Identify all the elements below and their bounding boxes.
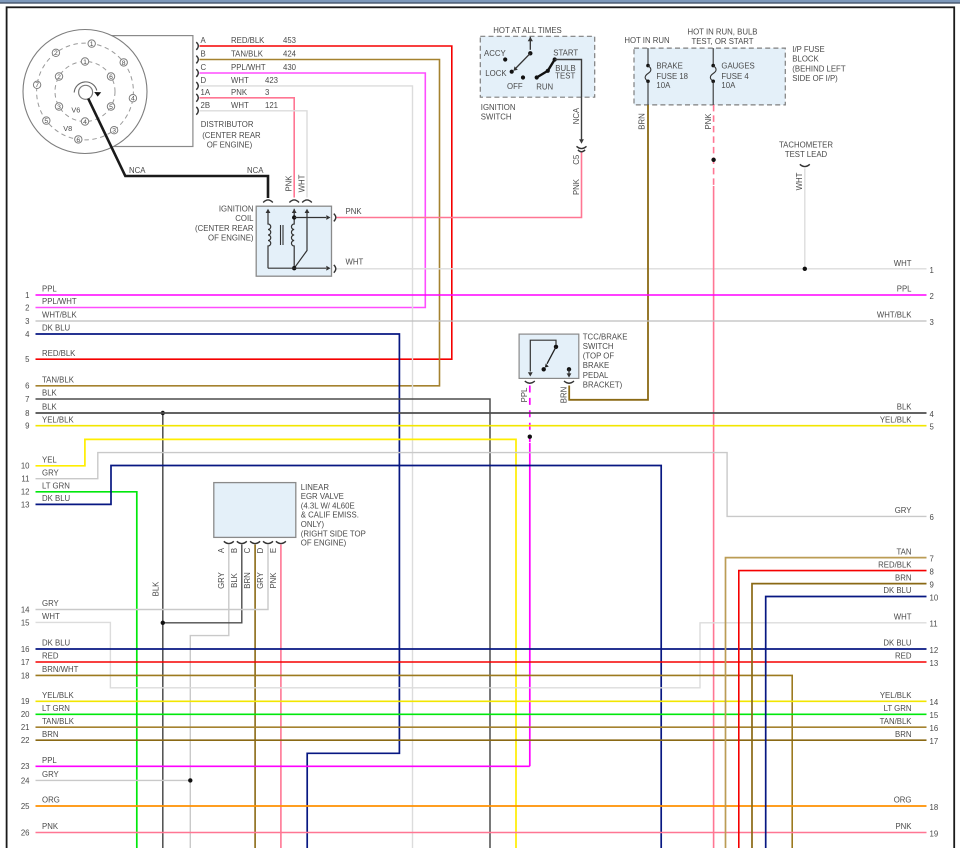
svg-text:1: 1 (90, 41, 94, 48)
svg-text:430: 430 (283, 63, 297, 72)
wire PNK EGR pin E to bottom (280, 545, 282, 848)
svg-text:14: 14 (21, 605, 30, 614)
svg-text:10A: 10A (656, 81, 671, 90)
svg-text:BLOCK: BLOCK (792, 55, 819, 64)
svg-text:PNK: PNK (231, 88, 248, 97)
wire left 7 BLK (36, 399, 491, 848)
EGR pin B connector (237, 541, 247, 543)
svg-text:BRAKE: BRAKE (583, 361, 609, 370)
svg-text:(CENTER REAR: (CENTER REAR (202, 131, 261, 140)
svg-text:ONLY): ONLY) (301, 520, 325, 529)
svg-text:OF ENGINE): OF ENGINE) (208, 234, 254, 243)
svg-text:2: 2 (57, 74, 61, 81)
svg-text:3: 3 (112, 128, 116, 135)
RUN contact (535, 75, 539, 79)
wire BLK riser from wire 8 to bottom (162, 413, 164, 848)
svg-text:21: 21 (21, 723, 30, 732)
coil top junction node (292, 215, 296, 219)
wire BRN EGR pin C to bottom (254, 545, 256, 848)
wire left 12 LT GRN (36, 492, 137, 848)
svg-text:22: 22 (21, 736, 30, 745)
svg-text:26: 26 (21, 828, 30, 837)
wire left 11 GRY (36, 453, 927, 517)
LOCK contact (510, 70, 514, 74)
svg-text:D: D (256, 547, 265, 553)
svg-text:A: A (201, 36, 207, 45)
svg-text:8: 8 (930, 567, 934, 576)
wire BLK EGR pin B to BLK riser (163, 545, 242, 623)
svg-text:(CENTER REAR: (CENTER REAR (195, 224, 254, 233)
svg-text:DK BLU: DK BLU (883, 639, 912, 648)
svg-text:C: C (243, 547, 252, 553)
svg-text:OFF: OFF (507, 82, 523, 91)
svg-text:14: 14 (930, 698, 939, 707)
svg-text:423: 423 (265, 76, 278, 85)
EGR pin A connector (224, 541, 234, 543)
svg-text:YEL: YEL (42, 456, 57, 465)
svg-text:(4.3L W/ 4L60E: (4.3L W/ 4L60E (301, 501, 355, 510)
svg-text:SIDE OF I/P): SIDE OF I/P) (792, 74, 838, 83)
svg-text:3: 3 (930, 318, 934, 327)
svg-text:PNK: PNK (269, 572, 278, 589)
svg-text:10: 10 (21, 462, 30, 471)
svg-text:A: A (217, 547, 226, 553)
svg-text:(TOP OF: (TOP OF (583, 352, 615, 361)
svg-text:6: 6 (25, 382, 29, 391)
EGR pin D connector (263, 541, 273, 543)
wire right 9 BRN (752, 584, 927, 848)
svg-text:4: 4 (930, 410, 935, 419)
distributor pin 1A PNK 3 (196, 94, 198, 102)
TCC switch upper contact (554, 345, 558, 349)
svg-text:ORG: ORG (42, 796, 60, 805)
distributor V6 terminal 1 (81, 58, 88, 65)
svg-text:TAN: TAN (896, 547, 911, 556)
svg-text:SWITCH: SWITCH (481, 112, 512, 121)
svg-text:TCC/BRAKE: TCC/BRAKE (583, 332, 628, 341)
svg-text:BRN: BRN (243, 572, 252, 588)
svg-text:RED/BLK: RED/BLK (42, 349, 76, 358)
svg-text:PNK: PNK (42, 822, 59, 831)
svg-text:TEST LEAD: TEST LEAD (785, 150, 828, 159)
svg-text:6: 6 (109, 74, 113, 81)
wire left 8 BLK (36, 412, 927, 414)
wire TAN/BLK 424 distributor-B to left terminal 6 (36, 60, 440, 386)
wire left 15 WHT (36, 622, 927, 687)
svg-text:20: 20 (21, 710, 30, 719)
wire WHT coil output to right terminal 1 (337, 268, 927, 270)
distributor V8 terminal 6 (75, 136, 82, 143)
OFF contact (521, 75, 525, 79)
svg-text:15: 15 (930, 711, 939, 720)
wire left 10 YEL (36, 439, 517, 848)
svg-text:GRY: GRY (42, 770, 60, 779)
svg-text:5: 5 (44, 118, 48, 125)
wire right 10 DK BLU (766, 597, 927, 848)
ignition coil connector caps (263, 200, 273, 203)
svg-text:WHT: WHT (795, 172, 804, 190)
svg-text:PNK: PNK (704, 113, 713, 130)
junction wire8-BLK riser (161, 411, 165, 415)
svg-text:7: 7 (25, 395, 29, 404)
distributor pin A RED/BLK 453 (196, 42, 198, 50)
wire left 22 BRN (36, 739, 927, 741)
TCC switch lever (547, 347, 556, 364)
svg-text:6: 6 (76, 137, 80, 144)
svg-text:NCA: NCA (572, 107, 581, 124)
ignition switch lever (516, 53, 530, 68)
svg-text:25: 25 (21, 802, 30, 811)
svg-text:GRY: GRY (895, 506, 913, 515)
svg-text:2: 2 (25, 303, 29, 312)
distributor V8 terminal 7 (33, 81, 40, 88)
svg-text:DK BLU: DK BLU (883, 586, 912, 595)
svg-text:& CALIF EMISS.: & CALIF EMISS. (301, 511, 359, 520)
svg-text:13: 13 (930, 659, 939, 668)
svg-text:4: 4 (25, 330, 30, 339)
distributor rotor center (79, 85, 93, 99)
svg-text:BLK: BLK (42, 403, 58, 412)
svg-text:6: 6 (930, 513, 934, 522)
svg-text:PPL/WHT: PPL/WHT (42, 297, 77, 306)
gauges fuse 4 10A (712, 48, 714, 66)
svg-text:HOT AT ALL TIMES: HOT AT ALL TIMES (493, 26, 561, 35)
svg-text:DK BLU: DK BLU (42, 494, 71, 503)
svg-text:2: 2 (54, 50, 58, 57)
distributor pin C PPL/WHT 430 (196, 69, 198, 77)
svg-text:YEL/BLK: YEL/BLK (880, 691, 912, 700)
distributor V8 dashed ring (37, 43, 134, 140)
svg-text:WHT/BLK: WHT/BLK (877, 311, 912, 320)
splice on PNK fuse wire (711, 158, 715, 162)
svg-text:PNK: PNK (572, 178, 581, 195)
svg-text:1: 1 (930, 266, 934, 275)
svg-text:B: B (201, 50, 206, 59)
svg-text:TAN/BLK: TAN/BLK (880, 717, 913, 726)
junction BLK riser EGR-B (161, 621, 165, 625)
wire NCA distributor rotor to ignition coil (88, 99, 268, 199)
svg-text:(BEHIND LEFT: (BEHIND LEFT (792, 64, 846, 73)
ignition coil U1 box (256, 206, 331, 276)
svg-text:E: E (269, 548, 278, 553)
distributor V6 dashed ring (55, 62, 115, 122)
svg-text:2: 2 (930, 292, 934, 301)
svg-text:GRY: GRY (42, 599, 60, 608)
svg-text:8: 8 (25, 409, 29, 418)
wire left 24 GRY (36, 779, 191, 781)
BULB TEST contact (546, 69, 550, 73)
svg-text:SWITCH: SWITCH (583, 342, 614, 351)
svg-text:17: 17 (930, 737, 939, 746)
junction wire 24 GRY to EGR-A riser (188, 778, 192, 782)
coil secondary winding (291, 218, 294, 269)
distributor V6 terminal 6 (107, 73, 114, 80)
coil bottom junction node (292, 266, 296, 270)
svg-text:WHT: WHT (346, 258, 364, 267)
wire right 7 TAN (726, 558, 927, 848)
svg-text:OF ENGINE): OF ENGINE) (301, 539, 347, 548)
svg-text:PPL: PPL (897, 285, 912, 294)
svg-text:FUSE 4: FUSE 4 (721, 72, 749, 81)
svg-text:BRN: BRN (560, 387, 569, 403)
distributor V6 terminal 2 (55, 73, 62, 80)
svg-text:BLK: BLK (152, 581, 161, 597)
svg-text:BRN: BRN (895, 573, 911, 582)
distributor cap circle (23, 30, 147, 154)
svg-text:PPL: PPL (42, 285, 57, 294)
svg-text:START: START (553, 49, 578, 58)
svg-text:WHT: WHT (231, 101, 249, 110)
svg-text:C5: C5 (572, 154, 581, 165)
svg-text:HOT IN RUN: HOT IN RUN (624, 36, 669, 45)
svg-text:EGR VALVE: EGR VALVE (301, 492, 344, 501)
svg-text:10: 10 (930, 593, 939, 602)
svg-text:FUSE 18: FUSE 18 (656, 72, 688, 81)
coil WHT output connector (334, 265, 336, 273)
ACCY contact (503, 57, 507, 61)
svg-text:LOCK: LOCK (485, 69, 507, 78)
svg-text:IGNITION: IGNITION (219, 205, 254, 214)
svg-text:15: 15 (21, 618, 30, 627)
svg-text:13: 13 (21, 500, 30, 509)
svg-text:18: 18 (21, 671, 30, 680)
wire left 4 DK BLU (36, 334, 400, 848)
svg-text:ACCY: ACCY (484, 49, 506, 58)
distributor connector box (88, 36, 193, 147)
svg-text:1: 1 (83, 59, 87, 66)
svg-text:WHT: WHT (42, 612, 60, 621)
TCC connector BRN (564, 381, 574, 383)
svg-text:3: 3 (25, 317, 29, 326)
svg-text:I/P FUSE: I/P FUSE (792, 45, 824, 54)
svg-text:COIL: COIL (235, 214, 254, 223)
wire left 21 TAN/BLK (36, 726, 927, 728)
wire PNK 3 distributor-1A to ignition coil (200, 98, 295, 198)
START contact (553, 57, 557, 61)
TCC switch internal path (530, 340, 556, 371)
TCC switch lower contact (542, 367, 546, 371)
svg-text:RED/BLK: RED/BLK (878, 560, 912, 569)
EGR pin C connector (250, 541, 260, 543)
svg-text:19: 19 (930, 829, 939, 838)
svg-text:4: 4 (83, 119, 87, 126)
wire PPL solid segment to wire 23 (529, 443, 531, 766)
svg-text:RED: RED (42, 652, 59, 661)
svg-text:2B: 2B (201, 101, 211, 110)
svg-text:5: 5 (25, 355, 30, 364)
svg-text:BRN: BRN (42, 730, 58, 739)
svg-text:10A: 10A (721, 81, 736, 90)
wire RED/BLK 453 distributor-A to left terminal 5 (36, 46, 452, 359)
svg-text:LT GRN: LT GRN (42, 704, 70, 713)
svg-text:YEL/BLK: YEL/BLK (42, 691, 74, 700)
coil PNK output connector (334, 214, 336, 222)
svg-text:WHT: WHT (298, 174, 307, 192)
svg-text:424: 424 (283, 50, 297, 59)
svg-text:5: 5 (930, 423, 935, 432)
ignition switch feed arrow (529, 37, 531, 50)
wire left 20 LT GRN (36, 713, 927, 715)
connector C5 (577, 146, 587, 148)
svg-text:IGNITION: IGNITION (481, 103, 516, 112)
wire NCA ignition switch to C5 (555, 60, 582, 140)
svg-text:GRY: GRY (217, 571, 226, 589)
svg-text:24: 24 (21, 776, 30, 785)
svg-text:1: 1 (25, 291, 29, 300)
svg-text:BLK: BLK (42, 389, 58, 398)
svg-text:D: D (201, 76, 207, 85)
wire PPL/WHT 430 distributor-C to left terminal 2 (36, 73, 426, 308)
svg-text:B: B (230, 548, 239, 553)
svg-text:PPL: PPL (42, 756, 57, 765)
svg-text:WHT: WHT (231, 76, 249, 85)
wire right 8 RED/BLK (739, 571, 927, 848)
svg-text:HOT IN RUN, BULB: HOT IN RUN, BULB (687, 27, 757, 36)
svg-text:17: 17 (21, 658, 30, 667)
svg-text:ORG: ORG (894, 796, 912, 805)
svg-text:BRACKET): BRACKET) (583, 380, 623, 389)
svg-text:DISTRIBUTOR: DISTRIBUTOR (201, 120, 254, 129)
wire PNK gauges fuse dashed segment (713, 105, 715, 186)
wire left 1 PPL (36, 294, 927, 296)
wire left 26 PNK (36, 832, 927, 834)
svg-text:LT GRN: LT GRN (42, 482, 70, 491)
distributor V8 terminal 5 (43, 117, 50, 124)
svg-text:TEST: TEST (555, 71, 575, 80)
svg-text:3: 3 (57, 104, 61, 111)
wire left 3 WHT/BLK (36, 320, 927, 322)
wire left 13 DK BLU (36, 466, 662, 848)
svg-text:12: 12 (21, 488, 30, 497)
svg-text:WHT: WHT (894, 259, 912, 268)
svg-text:(RIGHT SIDE TOP: (RIGHT SIDE TOP (301, 529, 366, 538)
svg-text:GRY: GRY (42, 468, 60, 477)
svg-text:BRN/WHT: BRN/WHT (42, 665, 79, 674)
wire GRY EGR pin A down-left to bottom (190, 545, 229, 848)
svg-text:PEDAL: PEDAL (583, 371, 609, 380)
distributor V8 terminal 1 (88, 40, 95, 47)
switch closed path START-BULBTEST-RUN (537, 60, 555, 78)
svg-text:11: 11 (21, 475, 29, 484)
svg-text:YEL/BLK: YEL/BLK (42, 415, 74, 424)
svg-text:16: 16 (21, 645, 30, 654)
wire PNK coil output to C5 (337, 153, 582, 218)
distributor pin D WHT 423 (196, 82, 198, 90)
svg-text:23: 23 (21, 762, 30, 771)
svg-text:8: 8 (122, 60, 126, 67)
TCC switch right contact (567, 367, 571, 371)
distributor V8 terminal 8 (120, 59, 127, 66)
svg-text:7: 7 (35, 82, 39, 89)
linear EGR valve box (214, 483, 296, 538)
top toolbar strip (0, 0, 960, 2)
wire PNK gauges fuse to bottom (713, 186, 715, 848)
svg-text:11: 11 (930, 620, 938, 629)
svg-text:GAUGES: GAUGES (721, 61, 754, 70)
svg-text:16: 16 (930, 724, 939, 733)
svg-text:LT GRN: LT GRN (884, 704, 912, 713)
svg-text:V6: V6 (71, 106, 80, 115)
svg-text:C: C (201, 63, 207, 72)
svg-text:PNK: PNK (895, 822, 912, 831)
svg-text:LINEAR: LINEAR (301, 483, 330, 492)
svg-text:9: 9 (25, 422, 29, 431)
svg-text:TAN/BLK: TAN/BLK (42, 376, 75, 385)
wire left 14 GRY (36, 545, 269, 610)
distributor V8 terminal 4 (129, 95, 136, 102)
brake fuse 18 10A (647, 48, 649, 66)
svg-text:OF ENGINE): OF ENGINE) (207, 140, 253, 149)
tachometer test lead connector (800, 164, 810, 166)
svg-text:BRN: BRN (895, 730, 911, 739)
svg-text:BLK: BLK (230, 572, 239, 588)
svg-text:TACHOMETER: TACHOMETER (779, 141, 833, 150)
distributor V6 terminal 4 (81, 118, 88, 125)
wire left 19 YEL/BLK (36, 700, 927, 702)
svg-text:V8: V8 (63, 124, 72, 133)
svg-text:121: 121 (265, 101, 278, 110)
svg-text:NCA: NCA (129, 166, 146, 175)
svg-text:RED/BLK: RED/BLK (231, 36, 265, 45)
distributor pin B TAN/BLK 424 (196, 56, 198, 64)
distributor V8 terminal 2 (52, 49, 59, 56)
wire WHT tachometer test lead (804, 169, 806, 269)
EGR pin E connector (276, 541, 286, 543)
TCC connector PPL (525, 381, 535, 383)
distributor V8 terminal 3 (110, 127, 117, 134)
distributor V6 terminal 3 (55, 103, 62, 110)
distributor rotor rotation arc (74, 82, 97, 93)
wire WHT 423 distributor-D down to bottom (200, 86, 413, 848)
svg-text:PPL/WHT: PPL/WHT (231, 63, 266, 72)
wire BRN brake fuse to TCC brake switch (569, 105, 648, 400)
svg-text:RED: RED (895, 652, 912, 661)
svg-text:12: 12 (930, 646, 939, 655)
svg-text:BRAKE: BRAKE (656, 61, 682, 70)
svg-text:PNK: PNK (346, 207, 363, 216)
svg-text:PNK: PNK (285, 175, 294, 192)
svg-text:5: 5 (109, 104, 113, 111)
I/P fuse block box (634, 48, 785, 105)
svg-text:BLK: BLK (897, 403, 913, 412)
svg-text:19: 19 (21, 697, 30, 706)
svg-text:DK BLU: DK BLU (42, 324, 71, 333)
svg-text:DK BLU: DK BLU (42, 639, 71, 648)
wire WHT 121 distributor-2B to ignition coil (200, 111, 308, 198)
wire PPL dashed TCC switch to wire 23 (529, 386, 531, 444)
junction WHT tach lead (803, 267, 807, 271)
distributor pin 2B WHT 121 (196, 107, 198, 115)
svg-text:4: 4 (131, 96, 135, 103)
svg-text:9: 9 (930, 580, 934, 589)
TCC/BRAKE switch box (519, 334, 579, 378)
svg-text:18: 18 (930, 803, 939, 812)
coil third branch (294, 212, 307, 268)
svg-text:BRN: BRN (637, 113, 646, 129)
svg-text:RUN: RUN (536, 83, 553, 92)
splice on PPL dashed wire (528, 435, 532, 439)
svg-text:453: 453 (283, 36, 296, 45)
coil primary winding (268, 212, 271, 268)
wire left 23 PPL (36, 765, 530, 767)
ignition switch box (480, 36, 594, 97)
svg-text:NCA: NCA (247, 166, 264, 175)
svg-text:TEST, OR START: TEST, OR START (691, 37, 753, 46)
svg-text:TAN/BLK: TAN/BLK (231, 50, 264, 59)
svg-text:3: 3 (265, 88, 269, 97)
wire left 25 ORG (36, 805, 927, 807)
wire left 18 BRN/WHT (36, 675, 793, 848)
